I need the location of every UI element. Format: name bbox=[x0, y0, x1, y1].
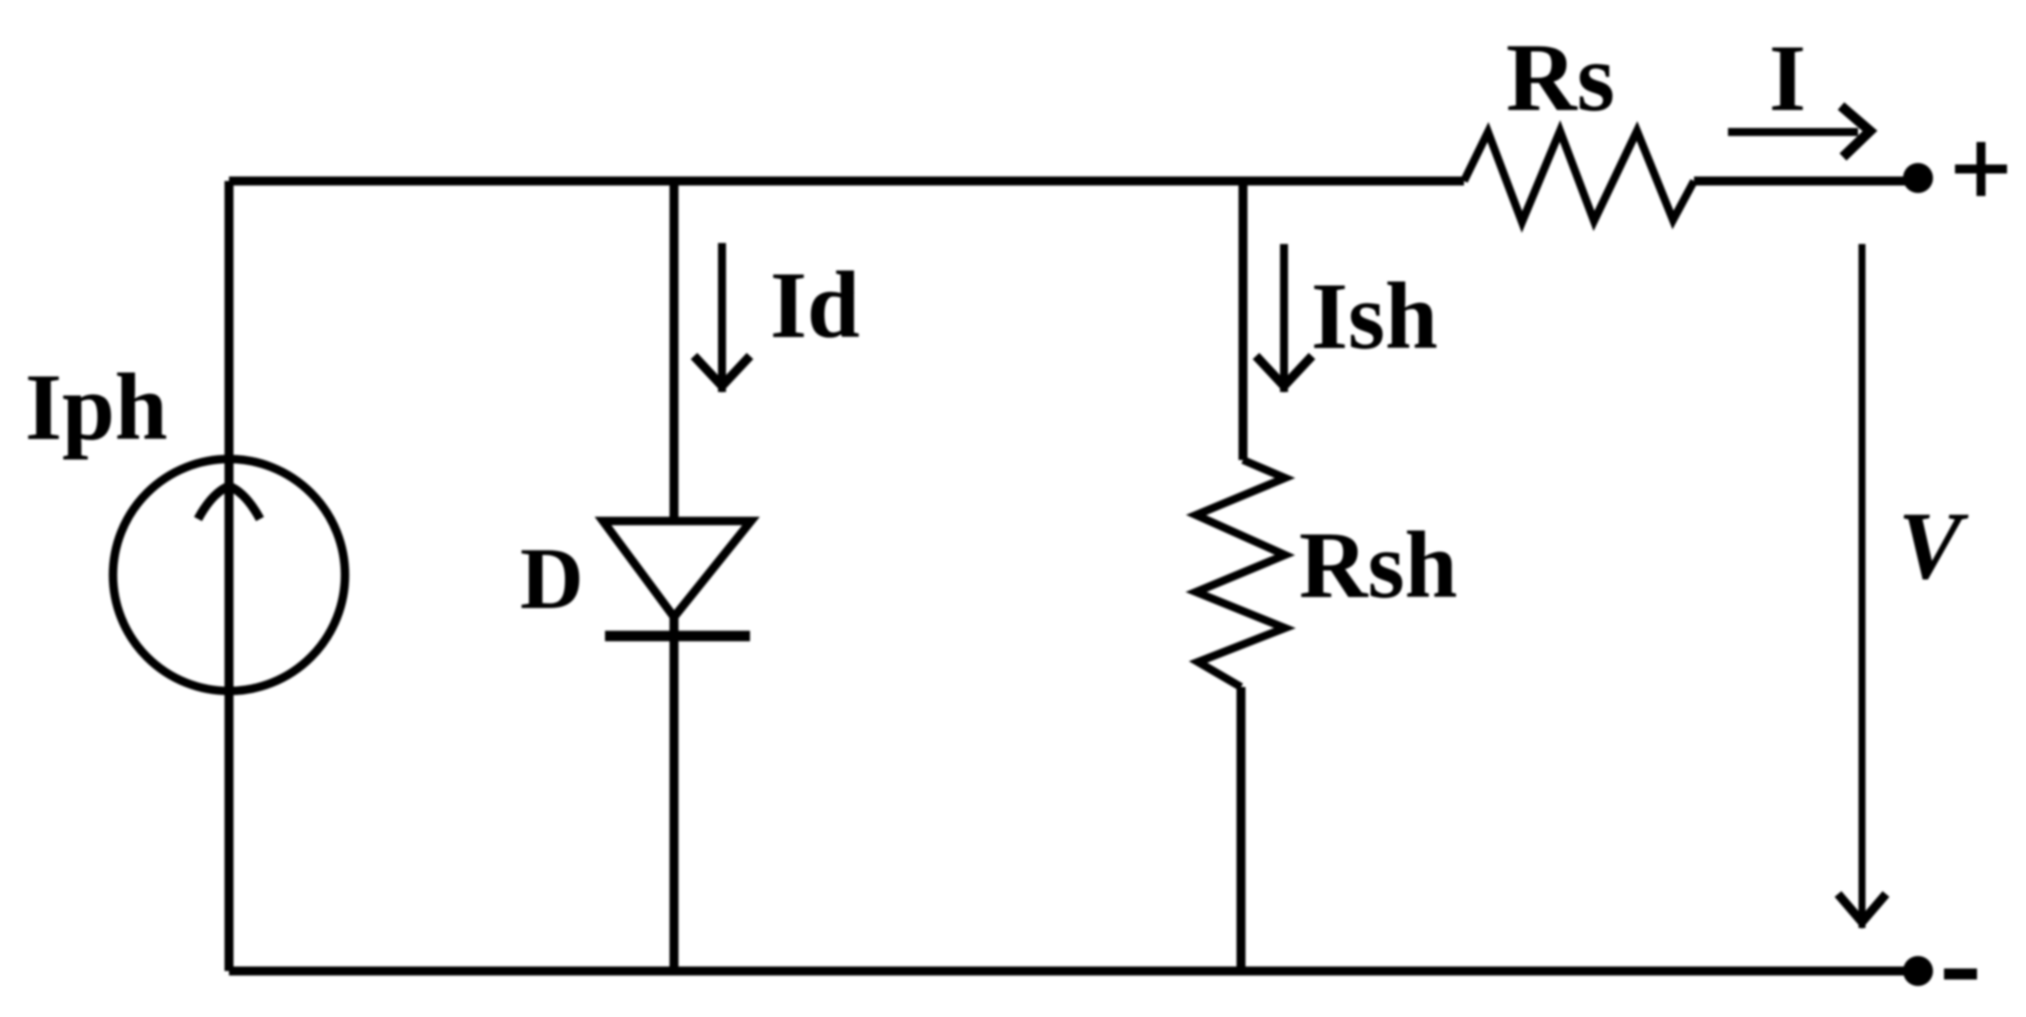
arrow Ish head bbox=[1256, 356, 1312, 386]
wire top-left horizontal (node A to Rs) bbox=[229, 177, 1464, 186]
svg-text:Iph: Iph bbox=[25, 354, 168, 460]
wire shunt branch top bbox=[1239, 181, 1248, 460]
diode D cathode bar bbox=[605, 631, 750, 642]
svg-text:Ish: Ish bbox=[1311, 263, 1438, 369]
arrow I head bbox=[1841, 106, 1870, 157]
arrow I shaft bbox=[1728, 128, 1858, 136]
svg-text:I: I bbox=[1769, 25, 1806, 131]
wire Rs to positive terminal bbox=[1694, 177, 1918, 186]
wire left vertical branch bbox=[225, 181, 234, 971]
wire shunt branch bottom bbox=[1237, 687, 1246, 971]
arrow Ish shaft bbox=[1280, 244, 1288, 392]
svg-text:V: V bbox=[1898, 492, 1969, 599]
arrow V head bbox=[1838, 894, 1886, 922]
current source arrowhead bbox=[198, 486, 260, 519]
resistor Rsh bbox=[1196, 460, 1285, 687]
arrow Id shaft bbox=[718, 243, 726, 392]
plus terminal symbol bbox=[1955, 142, 2007, 196]
svg-text:Id: Id bbox=[770, 252, 860, 358]
node dot negative terminal bbox=[1903, 956, 1933, 986]
arrow V shaft bbox=[1859, 244, 1866, 928]
wire diode branch bottom bbox=[670, 617, 679, 971]
diode D triangle bbox=[603, 521, 751, 617]
resistor Rs bbox=[1464, 131, 1694, 222]
svg-text:Rsh: Rsh bbox=[1299, 512, 1457, 618]
current source Iph circle bbox=[113, 459, 345, 691]
minus terminal symbol bbox=[1944, 969, 1977, 980]
arrow Id head bbox=[694, 356, 750, 386]
wire diode branch top bbox=[670, 181, 679, 521]
svg-text:Rs: Rs bbox=[1506, 24, 1615, 132]
wire bottom horizontal bbox=[229, 967, 1918, 976]
svg-text:D: D bbox=[520, 531, 584, 628]
node dot positive terminal bbox=[1903, 163, 1933, 193]
